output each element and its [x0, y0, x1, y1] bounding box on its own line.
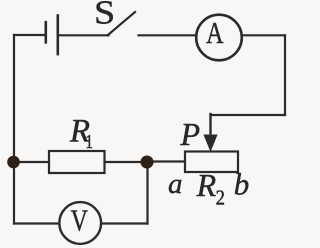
wire right vertical: [284, 35, 286, 115]
rheostat wiper arrowhead P: [203, 135, 217, 153]
wire bottom left to voltmeter: [14, 222, 59, 224]
wire wiper feed horizontal: [211, 114, 286, 116]
svg-text:R: R: [196, 167, 217, 203]
wire switch blade: [108, 12, 136, 35]
wire riser up to node: [146, 162, 148, 224]
voltmeter circle: [59, 202, 101, 244]
wire R1 row left: [14, 161, 49, 163]
battery negative short plate: [44, 21, 47, 44]
svg-text:a: a: [168, 168, 183, 200]
svg-text:b: b: [234, 166, 250, 201]
svg-text:2: 2: [216, 186, 225, 209]
wire top-left from corner to battery: [14, 34, 46, 36]
svg-text:P: P: [180, 116, 201, 152]
wire wiper vertical: [209, 114, 211, 136]
wire voltmeter to riser: [101, 222, 147, 224]
wire battery to switch pivot: [58, 34, 109, 36]
svg-text:A: A: [206, 16, 223, 51]
svg-text:S: S: [94, 0, 115, 31]
wire left vertical: [13, 35, 15, 224]
battery positive long plate: [56, 14, 59, 55]
rheostat R2 body: [185, 152, 238, 173]
svg-text:V: V: [71, 203, 88, 238]
wire ammeter to top-right corner: [242, 34, 285, 36]
node junction dot left: [7, 156, 20, 169]
wire switch contact to ammeter: [139, 34, 197, 36]
svg-text:1: 1: [85, 130, 93, 152]
node junction dot right: [141, 156, 154, 169]
wire node to rheostat: [147, 160, 185, 162]
resistor R1 body: [49, 151, 105, 173]
wire R1 row right to node: [105, 161, 148, 163]
ammeter U=A circle: [196, 15, 242, 61]
